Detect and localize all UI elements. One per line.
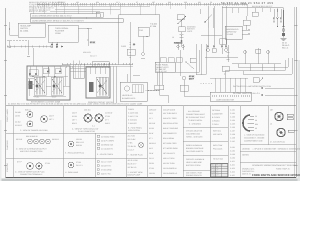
- border right: [295, 7, 297, 177]
- wire loop (dash harness routing): [119, 15, 160, 64]
- connector view C105: [65, 138, 85, 155]
- circuit description list (col 161): [163, 109, 179, 176]
- page edge shadow left: [0, 120, 2, 181]
- horn symbols: [244, 49, 270, 54]
- wire (loop bottom tie): [133, 60, 168, 103]
- secondary label row: [252, 5, 272, 8]
- wire (switch feed riser): [175, 9, 200, 72]
- wire drops into firewall connector: [210, 78, 248, 92]
- fuse block row: [160, 58, 182, 63]
- legend band: [242, 148, 301, 151]
- bulkhead connector side view: [243, 115, 265, 143]
- wire to firewall connector: [184, 91, 210, 96]
- wire list (col 95): [97, 135, 115, 156]
- switch blade: [178, 16, 186, 24]
- coil symbol: [180, 20, 184, 47]
- fuse panel tails: [155, 72, 164, 90]
- harness connector strip C1: [30, 12, 103, 17]
- horn feed wires: [205, 48, 268, 64]
- revision table (dense): [211, 164, 228, 177]
- connector block C3 (between clusters): [73, 64, 84, 78]
- wire (left feed): [7, 40, 28, 46]
- starter relay cluster: [222, 66, 229, 78]
- heater blower box: [120, 82, 147, 101]
- harness bus (cluster feed): [62, 64, 133, 66]
- connector view C106: [15, 161, 51, 177]
- wire run to engine compartment B: [233, 92, 294, 96]
- instrument cluster block: [27, 66, 70, 104]
- wire heater to loop: [147, 89, 160, 91]
- wire stub lines from labels: [50, 7, 150, 11]
- turn flasher pair: [252, 8, 258, 17]
- lamp sockets row: [29, 71, 61, 75]
- switch body: [179, 27, 186, 32]
- lamp symbol: [182, 75, 195, 92]
- ignition switch connector views: [270, 109, 294, 144]
- fuse block on wire: [121, 45, 135, 55]
- ground G2: [27, 44, 58, 56]
- constant voltage regulator: [138, 27, 149, 52]
- note cell 2: [186, 130, 203, 139]
- zone label column: [6, 108, 9, 172]
- page edge shadow bottom: [0, 178, 300, 181]
- connector C4 on bus: [92, 62, 109, 67]
- junction block (dark label box): [155, 62, 175, 73]
- stop lamp switch: [243, 16, 250, 30]
- connector arrows: [207, 45, 227, 48]
- riser components: [207, 48, 228, 54]
- gauge sender symbols: [133, 43, 145, 58]
- border left: [5, 8, 7, 177]
- wire bus (right collector 4): [243, 58, 292, 74]
- internal wires: [90, 67, 105, 74]
- wiring bus comb (main harness run): [37, 3, 248, 5]
- ignition switch assembly: [172, 15, 196, 47]
- scan noise overlay: [0, 0, 300, 181]
- splice dots (right): [200, 83, 213, 85]
- switch contacts right of wiper box: [242, 29, 250, 34]
- option list (col 210): [212, 109, 224, 161]
- wire from switch to flasher: [78, 28, 96, 46]
- wire label stack (left): [29, 1, 65, 13]
- wire labels (right top): [282, 42, 290, 50]
- wire tie (right mid): [201, 8, 222, 36]
- resistor block: [180, 85, 188, 91]
- ground G1: [8, 47, 11, 48]
- wire bus (right collector 3): [238, 58, 288, 67]
- table grid: [6, 106, 297, 178]
- page edge shadow right: [298, 60, 301, 181]
- wire bus (lower left ticked run): [7, 46, 64, 48]
- wire risers block2-heater: [113, 66, 117, 103]
- title block: [242, 164, 303, 177]
- fuse pair (accessory): [174, 42, 184, 51]
- indicator lamp and ground (right): [281, 10, 287, 41]
- headlamp switch box: [18, 23, 45, 37]
- cluster crossbar wire: [28, 67, 70, 97]
- wire bus (right collector 2): [225, 60, 285, 71]
- heater motor list: [128, 135, 144, 157]
- circuit number legend (col 147): [149, 109, 157, 176]
- wiper motor leads: [273, 9, 282, 27]
- border bottom: [6, 176, 297, 178]
- A/C switch cluster: [253, 77, 263, 82]
- wires between cluster blocks: [70, 61, 86, 72]
- wire drops from bus to connectors: [33, 5, 185, 19]
- ignition relay box: [48, 25, 78, 42]
- sheet zone numbers: [58, 1, 212, 4]
- wire drops from bus into printed circuit: [66, 66, 108, 68]
- accessory switch: [185, 58, 196, 69]
- connector view C102: [72, 109, 112, 134]
- note cell 4: [186, 158, 205, 167]
- temp gauge: [51, 77, 63, 99]
- circuit index ruler: [6, 103, 297, 106]
- wire risers (bundle to firewall): [196, 44, 206, 75]
- ignition coil feed: [180, 50, 182, 76]
- dimmer switch: [204, 15, 212, 29]
- wire list 2 (col 95 row3): [97, 160, 112, 175]
- indicator lamp boxes: [29, 69, 61, 76]
- note cell 5: [186, 172, 203, 178]
- note cell 3: [186, 144, 204, 153]
- wire run to engine compartment A: [233, 85, 294, 89]
- wire drop to cluster: [29, 40, 58, 66]
- wire labels row (top-right): [221, 1, 274, 5]
- oil gauge: [96, 77, 108, 96]
- MAIN SCHEMATIC placeholder groups inserted below: [4, 1, 298, 165]
- panel lamp labels: [83, 51, 97, 58]
- splice label blob: [150, 23, 158, 29]
- connector box on risers: [220, 39, 227, 45]
- junction column: [227, 45, 230, 62]
- firewall connector block: [210, 92, 251, 101]
- connector list (col 228): [230, 109, 235, 178]
- key warning box: [177, 15, 184, 20]
- harness connector strip C2: [30, 19, 123, 23]
- junction dots row: [29, 76, 56, 81]
- fuse table cell: [128, 108, 142, 132]
- socket note cell: [128, 159, 143, 177]
- dark indicator block: [29, 81, 33, 89]
- lamp socket view: [65, 161, 83, 174]
- wire risers (to rear lamps): [208, 6, 226, 45]
- border tick marks: [4, 25, 298, 165]
- notes band: [242, 154, 250, 157]
- connector view C104: [16, 135, 59, 153]
- dark indicator block 2: [89, 82, 94, 92]
- wire (battery feed left): [9, 22, 18, 35]
- note cell 1: [186, 110, 206, 126]
- splice dotted wire: [145, 90, 160, 92]
- cluster internal wires: [29, 66, 68, 96]
- wire drops from top feed line: [232, 5, 277, 17]
- wiper switch box: [225, 26, 242, 39]
- paper background: [0, 0, 300, 181]
- gauge cluster 2 block: [86, 67, 114, 104]
- wire (upper feed to ammeter): [222, 8, 283, 28]
- fuel gauge: [34, 77, 46, 99]
- resistor wire (ignition feed, ticked): [127, 22, 131, 82]
- wire bus (right collector 1): [232, 64, 281, 71]
- connector view C101: [15, 109, 54, 132]
